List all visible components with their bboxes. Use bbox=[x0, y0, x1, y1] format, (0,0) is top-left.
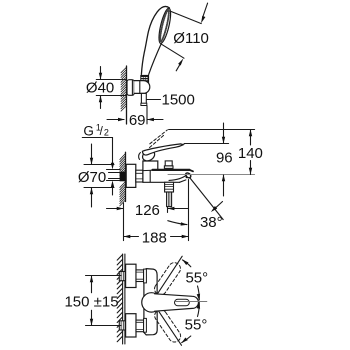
wall bracket escutcheon bbox=[127, 80, 134, 96]
svg-text:G: G bbox=[83, 123, 94, 138]
bottom hex nut bbox=[136, 320, 144, 332]
dimension 96 bbox=[216, 123, 233, 196]
lever raised -55 (dashed outline) bbox=[152, 307, 182, 344]
dimension 150 +/-15 bbox=[64, 276, 121, 326]
dimension 140 bbox=[238, 130, 263, 175]
lever handle (side view, solid) bbox=[142, 144, 183, 155]
svg-text:Ø110: Ø110 bbox=[173, 30, 209, 47]
dimension D40 bbox=[86, 67, 126, 109]
bottom collar bbox=[144, 318, 147, 332]
lever swing line upper 55 deg bbox=[157, 256, 182, 294]
svg-text:38°: 38° bbox=[200, 214, 223, 231]
hose nut (knurled band) bbox=[141, 75, 149, 84]
center line bbox=[175, 301, 206, 303]
wall (front view, double line with hatching) bbox=[117, 254, 125, 344]
lever raised +55 (dashed outline) bbox=[152, 260, 182, 297]
extension line lever top bbox=[184, 143, 229, 145]
wall bracket holder body bbox=[134, 81, 150, 94]
svg-text:Ø70: Ø70 bbox=[78, 169, 106, 186]
svg-text:69: 69 bbox=[129, 112, 146, 129]
wall (shower holder wall line) bbox=[121, 66, 127, 124]
dimension 188 bbox=[124, 229, 189, 246]
extension line spout tip bbox=[188, 180, 190, 241]
label 1500 (hose length) bbox=[147, 92, 195, 109]
hand shower outlet nipple (below body) bbox=[165, 182, 174, 206]
extension line spout axis bbox=[168, 174, 255, 176]
top collar bbox=[144, 269, 147, 283]
svg-text:188: 188 bbox=[142, 229, 167, 246]
svg-text:55°: 55° bbox=[185, 269, 208, 286]
38 deg stream direction line bbox=[168, 178, 223, 231]
dimension 55 deg upper bbox=[182, 260, 208, 301]
S-union hex nut bbox=[136, 170, 143, 182]
dimension 55 deg lower bbox=[181, 302, 207, 343]
svg-text:126: 126 bbox=[135, 202, 160, 219]
svg-text:140: 140 bbox=[238, 145, 263, 162]
mixer body (side view) bbox=[143, 161, 193, 182]
dimension 69 bbox=[107, 106, 163, 129]
extension line wall (below) bbox=[123, 203, 125, 241]
svg-text:2: 2 bbox=[104, 127, 109, 137]
svg-text:55°: 55° bbox=[185, 317, 208, 334]
cartridge dome bbox=[139, 148, 157, 163]
lever arm (front view) bbox=[155, 294, 199, 311]
lever base dome (front view) bbox=[142, 293, 161, 312]
top connection: in-wall union nut bbox=[119, 272, 125, 281]
svg-text:Ø40: Ø40 bbox=[86, 79, 114, 96]
dimension 126 bbox=[107, 202, 189, 219]
hose outlet tab bbox=[141, 93, 147, 105]
G 1/2 in-wall connection (dark square) bbox=[120, 172, 127, 182]
svg-text:150 ±15: 150 ±15 bbox=[64, 294, 118, 311]
top hex nut bbox=[136, 270, 144, 282]
hand shower handle bbox=[149, 43, 162, 75]
aerator outlet (38 deg) bbox=[185, 172, 192, 179]
bottom escutcheon bbox=[126, 314, 136, 337]
svg-text:96: 96 bbox=[216, 150, 233, 167]
label G 1/2 with leader line bbox=[82, 122, 112, 162]
extension line lever max height bbox=[169, 129, 255, 131]
dimension D110 bbox=[161, 3, 209, 71]
dimension D70 bbox=[78, 144, 114, 207]
lever swing line lower 55 deg bbox=[157, 308, 182, 345]
mixer body (front view) bbox=[144, 269, 157, 335]
escutcheon (side view, D70) bbox=[126, 164, 136, 187]
svg-text:1500: 1500 bbox=[162, 92, 195, 109]
hand shower head bbox=[141, 6, 173, 74]
top escutcheon bbox=[126, 264, 136, 287]
wall (mixer side view wall line) bbox=[120, 152, 126, 206]
dimension G1/2 thread (small unlabeled) bbox=[107, 163, 121, 195]
diverter knob on top bbox=[164, 161, 173, 169]
lever handle raised position (dashed) bbox=[150, 130, 168, 148]
bottom connection: in-wall union nut bbox=[119, 321, 125, 330]
